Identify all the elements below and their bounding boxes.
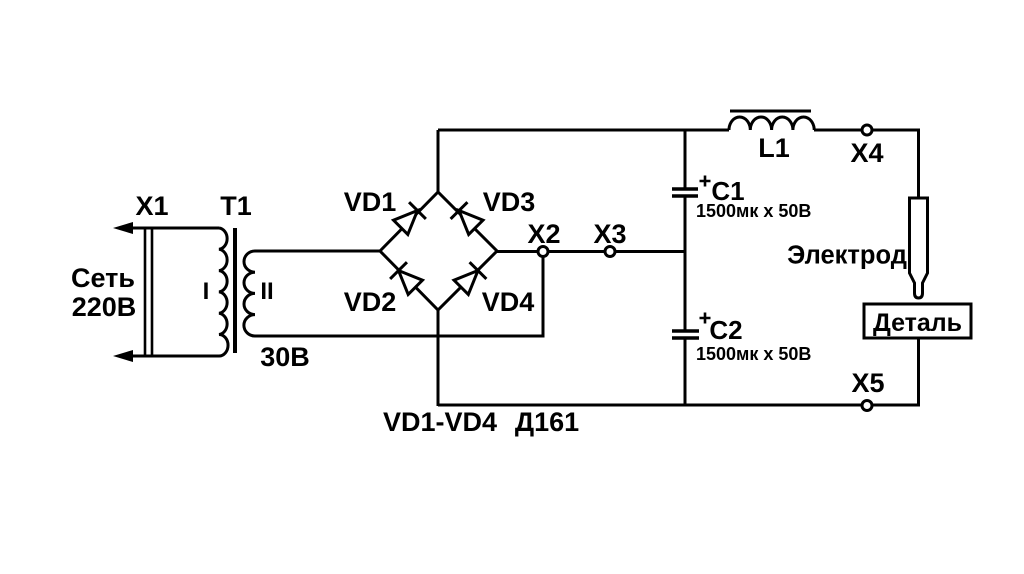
svg-text:X5: X5 [851,368,884,398]
diode VD2 [390,262,424,296]
svg-text:30В: 30В [260,342,310,372]
svg-text:C2: C2 [709,315,742,345]
svg-text:1500мк x 50В: 1500мк x 50В [696,344,811,364]
connector X5 [862,401,872,411]
wire: right side down to electrode [917,129,920,199]
svg-text:Д161: Д161 [515,407,579,437]
wire: bottom rail [438,404,919,407]
wire: mains bottom lead with arrow [113,350,219,362]
wire: top rail from bridge to L1 [438,129,729,132]
svg-text:Деталь: Деталь [873,309,962,337]
transformer T1 primary winding [219,228,228,356]
wire: mains top lead with arrow [113,222,219,234]
wire: bottom rail up to workpiece box [917,338,920,407]
transformer T1 secondary winding [244,251,255,336]
workpiece box Деталь [864,304,971,338]
capacitor C2 plus sign [700,313,711,324]
svg-text:X3: X3 [593,219,626,249]
svg-text:VD2: VD2 [344,287,397,317]
diode VD3 [451,202,485,236]
capacitor C1 plus sign [700,176,711,187]
capacitor midpoint rail middle segment [684,196,687,331]
inductor L1 winding [729,117,814,130]
svg-text:L1: L1 [758,133,790,163]
connector X1 (two-pin plug lines) [145,227,152,357]
connector X3 [605,247,615,257]
wire: bridge bottom vertex to bottom rail [437,310,440,406]
wire: secondary top to bridge left vertex [255,250,380,253]
wire: bridge top vertex to top rail [437,130,440,192]
inductor L1 core bar [730,110,811,113]
svg-text:Сеть: Сеть [71,263,135,293]
capacitor midpoint rail lower segment [684,338,687,407]
wire: bridge right vertex through X2 X3 to capacitor midpoint rail [497,250,685,253]
capacitor C1 plates [672,187,698,190]
svg-text:I: I [203,278,210,305]
capacitor midpoint rail upper segment [684,130,687,189]
svg-text:VD1: VD1 [344,187,397,217]
connector X2 [538,247,548,257]
svg-text:1500мк x 50В: 1500мк x 50В [696,201,811,221]
svg-text:II: II [260,278,273,305]
svg-text:Электрод: Электрод [787,242,907,270]
svg-text:T1: T1 [220,191,252,221]
connector X4 [862,125,872,135]
svg-text:220В: 220В [72,292,137,322]
svg-text:X4: X4 [850,138,883,168]
svg-text:X2: X2 [527,219,560,249]
diode VD4 [453,262,487,296]
svg-text:X1: X1 [135,191,168,221]
diode VD1 [392,202,426,236]
transformer T1 core [233,228,237,353]
svg-text:VD3: VD3 [483,187,536,217]
electrode symbol [910,198,928,298]
wire: vertical drop from X2 to secondary bottom run [542,253,545,338]
wire: L1 to X4 to right corner [814,129,919,132]
svg-text:VD1-VD4: VD1-VD4 [383,407,497,437]
bridge diamond wires [380,192,497,310]
capacitor C2 plates [672,329,699,332]
wire: secondary bottom run to X2 drop [255,335,543,338]
svg-text:VD4: VD4 [482,287,535,317]
